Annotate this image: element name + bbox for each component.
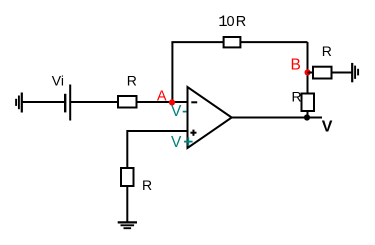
op-amp plus sign [190, 130, 196, 136]
resistor 10R (feedback) [224, 37, 241, 47]
svg-text:R: R [236, 14, 246, 30]
ground GND2 (right, sideways) [352, 63, 358, 82]
svg-text:R: R [292, 89, 302, 105]
wire node B to R3 [308, 72, 314, 74]
svg-text:V: V [171, 134, 182, 151]
node A (red dot) [169, 99, 175, 105]
node B (red dot) [305, 69, 311, 75]
wire R1 to op-amp inverting input [137, 101, 188, 103]
wire R2 to bottom ground [126, 186, 128, 223]
op-amp U1 triangle [188, 87, 232, 148]
op-amp minus sign [191, 101, 197, 103]
ground GND1 (left, sideways) [16, 93, 22, 113]
wire R4 to output node [307, 111, 309, 118]
wire feedback right vertical [307, 42, 309, 93]
svg-text:B: B [291, 56, 301, 73]
wire ground to battery [22, 101, 64, 103]
wire + input down to R2 [126, 130, 128, 168]
resistor R3 (B to ground) [313, 67, 332, 79]
svg-text:R: R [322, 43, 332, 59]
svg-text:V: V [322, 119, 333, 136]
battery Vi (source) [65, 85, 70, 121]
svg-text:R: R [127, 72, 137, 88]
wire R3 to right ground [332, 72, 353, 74]
resistor R2 (+ input to ground, vertical) [121, 168, 134, 186]
svg-text:R: R [142, 177, 152, 193]
wire output [232, 117, 323, 119]
wire op-amp + input horizontal [127, 130, 187, 132]
svg-text:V: V [171, 103, 182, 120]
svg-text:0: 0 [227, 14, 235, 30]
resistor R4 (B to output, vertical) [302, 94, 315, 112]
resistor R1 (input R) [118, 96, 137, 108]
wire feedback left vertical [171, 42, 173, 102]
svg-text:Vi: Vi [52, 73, 64, 89]
ground GND3 (bottom) [118, 222, 137, 228]
node output junction (black dot) [304, 114, 310, 120]
wire battery to R1 [70, 101, 118, 103]
svg-text:A: A [157, 88, 167, 104]
wire feedback top horizontal [171, 41, 307, 43]
